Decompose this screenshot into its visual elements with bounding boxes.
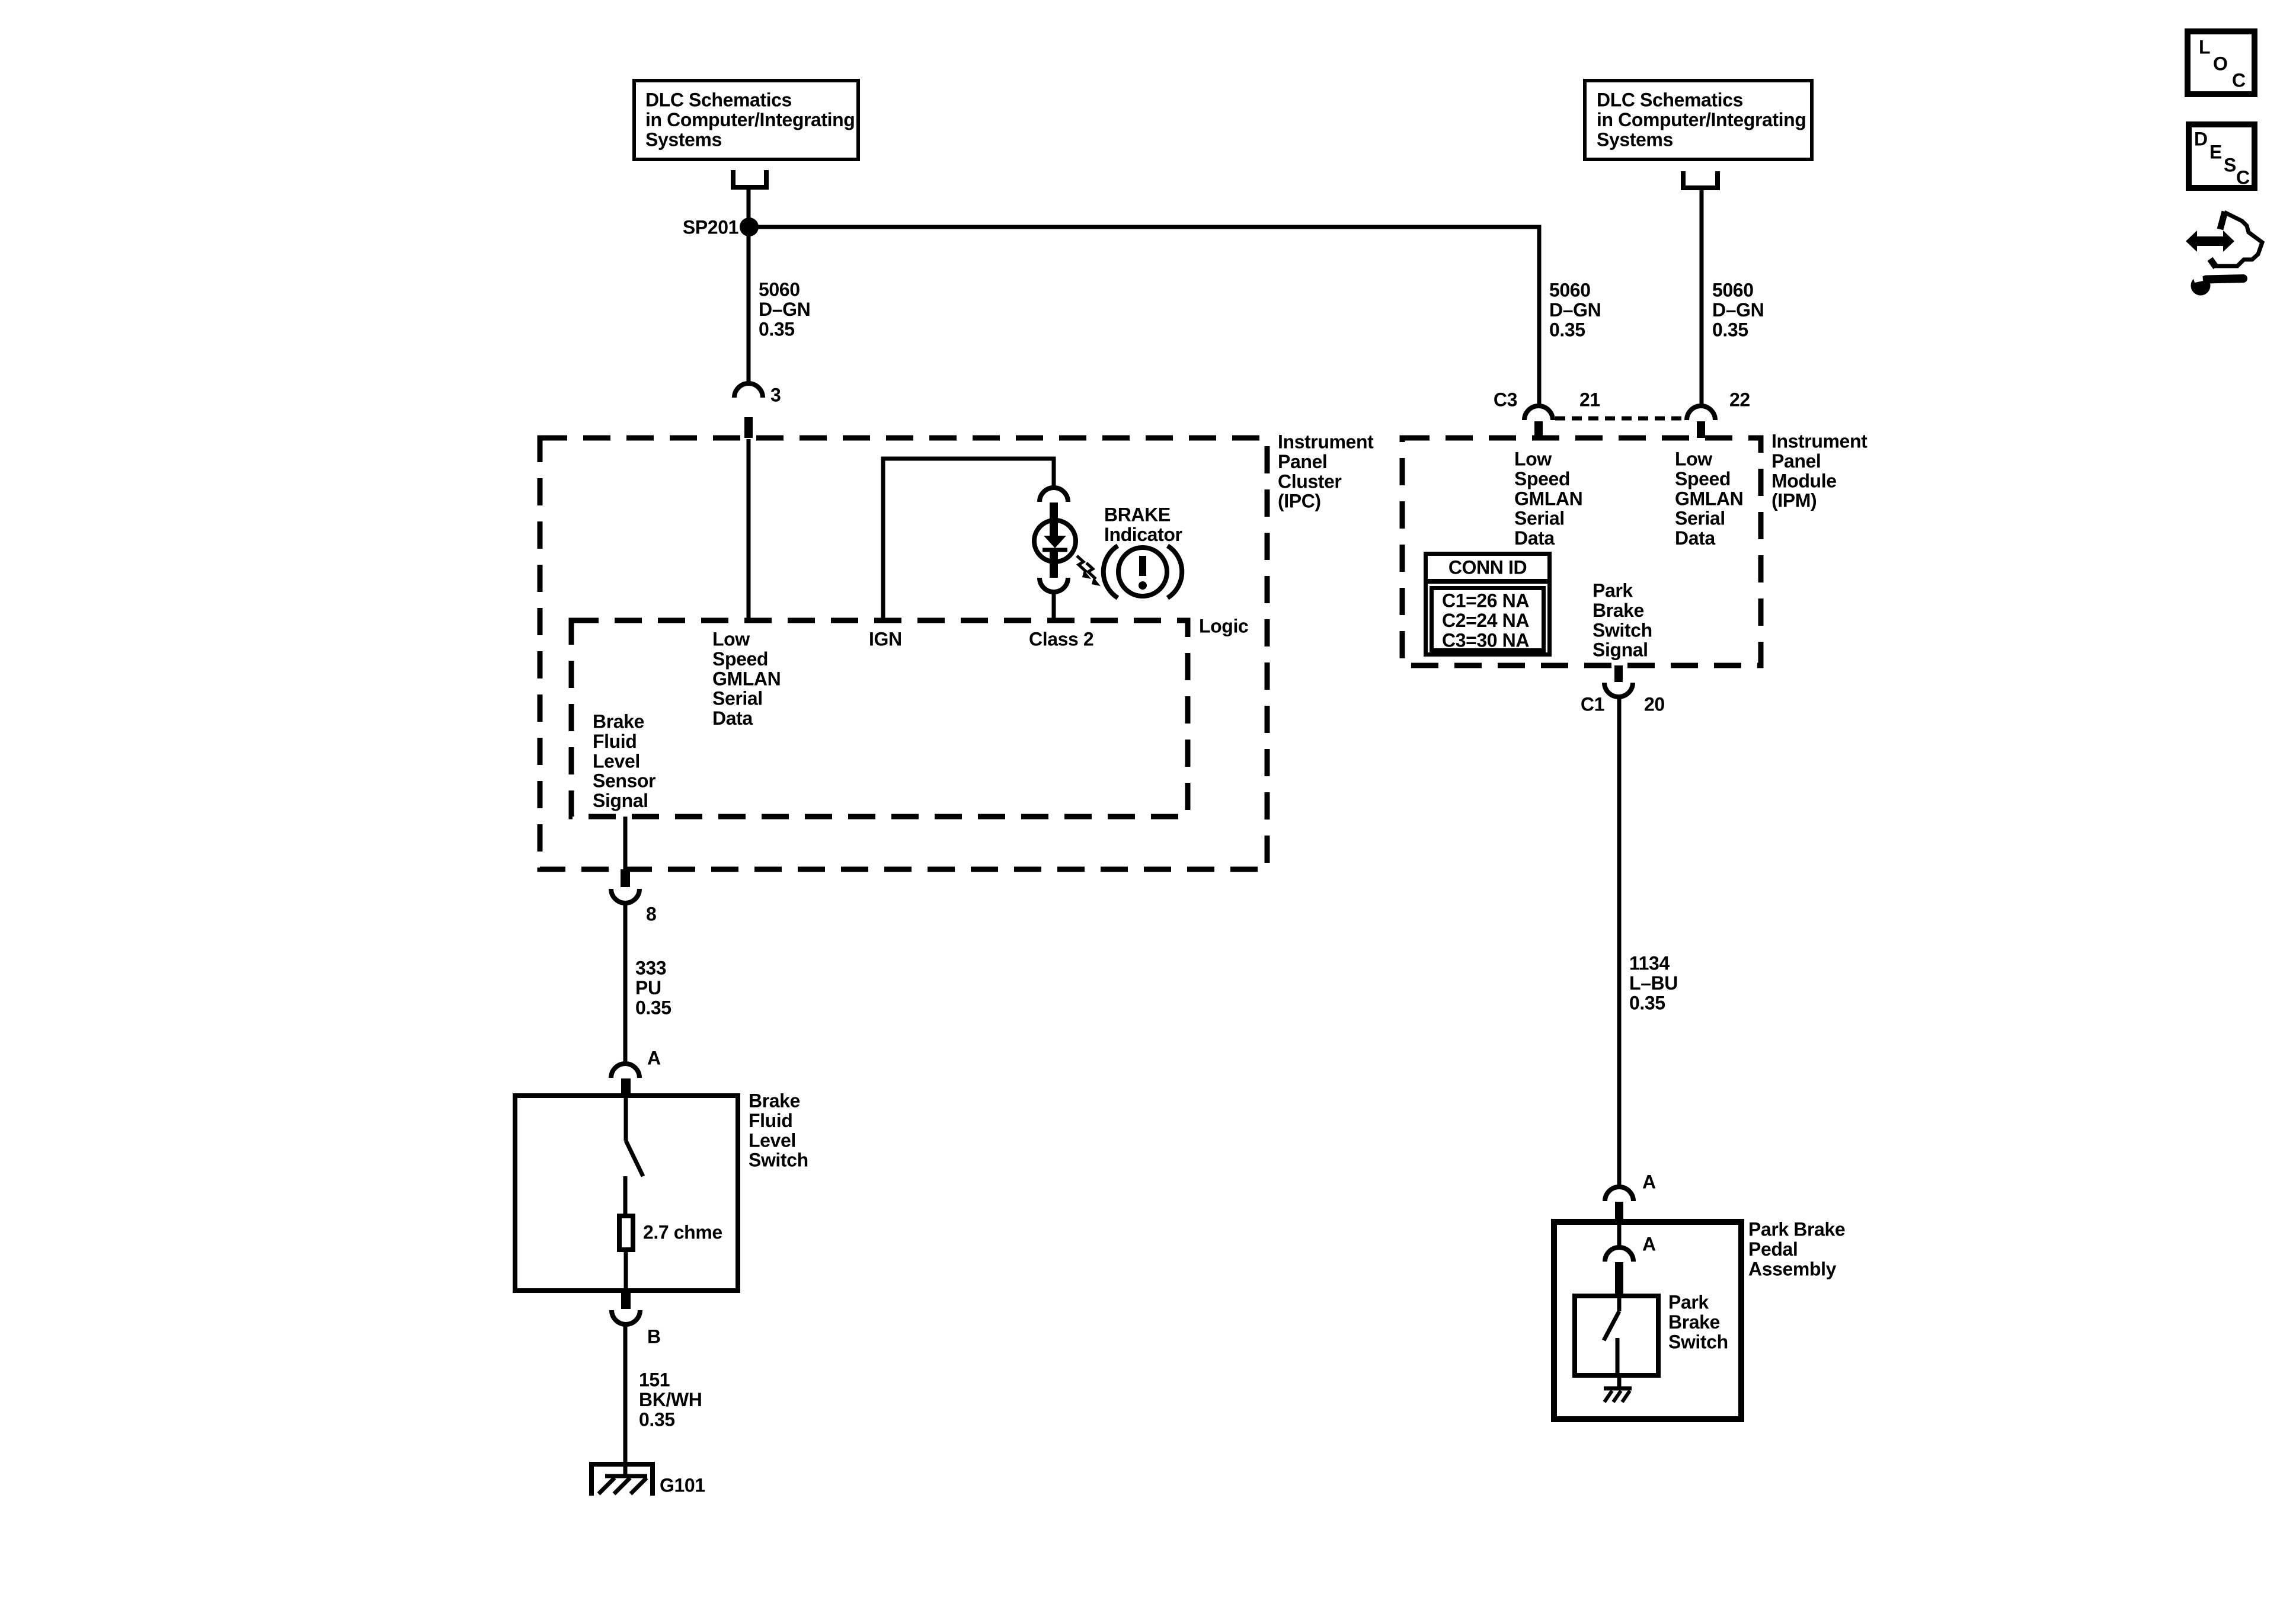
wire: sensor signal lead inside IPC	[623, 817, 628, 869]
ground G101 symbol	[589, 1462, 655, 1496]
resistor 2.7 ohm	[619, 1216, 633, 1250]
svg-text:151BK/WH0.35: 151BK/WH0.35	[639, 1369, 702, 1430]
box: Instrument Panel Cluster IPC (dashed)	[540, 438, 1267, 869]
wire: pin 3 into IPC logic (GMLAN serial data)	[747, 439, 751, 620]
svg-text:ParkBrakeSwitch: ParkBrakeSwitch	[1668, 1292, 1728, 1353]
connector: BRAKE indicator bottom	[1040, 578, 1068, 592]
park switch lower lead	[1616, 1338, 1620, 1378]
svg-text:InstrumentPanelCluster(IPC): InstrumentPanelCluster(IPC)	[1278, 431, 1374, 512]
svg-text:IGN: IGN	[869, 629, 902, 650]
switch lower lead	[623, 1176, 628, 1216]
box: Instrument Panel Module IPM (dashed)	[1402, 438, 1761, 665]
svg-text:C: C	[2232, 70, 2246, 91]
svg-text:SP201: SP201	[683, 217, 738, 238]
icon box: LOC	[2188, 31, 2255, 94]
svg-text:5060D–GN0.35: 5060D–GN0.35	[759, 279, 810, 340]
svg-text:333PU0.35: 333PU0.35	[635, 958, 671, 1019]
svg-text:DLC Schematicsin Computer/Inte: DLC Schematicsin Computer/IntegratingSys…	[1597, 89, 1806, 151]
svg-text:1134L–BU0.35: 1134L–BU0.35	[1629, 953, 1678, 1014]
wire: switch to ground G101	[623, 1324, 628, 1476]
svg-text:3: 3	[770, 385, 781, 406]
connector: assembly pin A	[1605, 1187, 1633, 1201]
svg-text:Class 2: Class 2	[1029, 629, 1093, 650]
icon: wrench	[2191, 276, 2211, 296]
connector bracket under left DLC box	[733, 170, 766, 187]
svg-text:BrakeFluidLevelSensorSignal: BrakeFluidLevelSensorSignal	[593, 711, 655, 812]
connector: IPM pin 22	[1687, 406, 1715, 420]
connector stub: IPM C1 pin 20	[1614, 665, 1623, 682]
svg-text:Logic: Logic	[1199, 616, 1248, 637]
dotted link between pins 21 and 22	[1555, 417, 1687, 421]
connector stub: pin 21	[1534, 421, 1543, 438]
switch contact upper lead	[624, 1097, 628, 1141]
connector: switch pin B	[612, 1310, 640, 1324]
svg-text:A: A	[1642, 1234, 1656, 1255]
icon: brake warning lamp circle	[1118, 548, 1167, 596]
wire: IGN to Class 2 bridge	[883, 459, 1054, 620]
splice SP201	[740, 217, 759, 236]
svg-text:C1: C1	[1581, 694, 1604, 715]
wire: pin 8 to brake fluid level switch	[623, 902, 628, 1065]
box: DLC Schematics reference (left)	[634, 81, 858, 159]
svg-text:BrakeFluidLevelSwitch: BrakeFluidLevelSwitch	[749, 1090, 808, 1171]
svg-text:A: A	[647, 1048, 661, 1069]
svg-text:CONN ID: CONN ID	[1448, 557, 1527, 578]
connector stub: park switch pin A	[1615, 1262, 1623, 1294]
svg-text:LowSpeedGMLANSerialData: LowSpeedGMLANSerialData	[1675, 449, 1743, 549]
wire: park switch to chassis ground	[1617, 1378, 1622, 1390]
switch blade	[626, 1141, 643, 1176]
svg-text:ParkBrakeSwitchSignal: ParkBrakeSwitchSignal	[1593, 580, 1652, 661]
wire: pin 20 to park brake pedal assembly	[1617, 697, 1622, 1188]
icon: right paren	[1168, 546, 1182, 598]
LED: BRAKE indicator lamp	[1034, 520, 1076, 562]
connector: park switch pin A	[1605, 1247, 1633, 1262]
svg-text:8: 8	[646, 904, 656, 925]
box: Park Brake Pedal Assembly	[1554, 1222, 1741, 1419]
svg-text:C1=26 NAC2=24 NAC3=30 NA: C1=26 NAC2=24 NAC3=30 NA	[1442, 590, 1529, 651]
resistor lower lead	[624, 1250, 628, 1293]
svg-text:S: S	[2224, 155, 2236, 176]
box: Brake Fluid Level Switch	[515, 1096, 738, 1291]
LED diode triangle	[1044, 536, 1066, 548]
table: CONN ID	[1426, 554, 1550, 655]
connector bracket under right DLC box	[1683, 171, 1718, 188]
chassis ground (park brake switch)	[1604, 1388, 1632, 1402]
lead: LED cathode	[1050, 552, 1058, 578]
connector: BRAKE indicator top	[1040, 488, 1068, 502]
wire: indicator to Class 2 pin	[1052, 592, 1056, 620]
svg-text:B: B	[647, 1326, 661, 1347]
svg-text:20: 20	[1644, 694, 1665, 715]
icon box: DESC	[2189, 124, 2255, 188]
svg-text:2.7 chme: 2.7 chme	[643, 1222, 722, 1243]
wire: SP201 down to IPC pin 3	[747, 227, 751, 385]
connector: IPC pin 8	[611, 889, 639, 903]
box: Park Brake Switch	[1575, 1296, 1658, 1375]
connector stub: pin 3	[744, 417, 753, 438]
wire: left DLC box to splice SP201	[747, 190, 751, 228]
svg-text:D: D	[2194, 129, 2208, 150]
connector stub: pin 22	[1697, 421, 1705, 438]
connector: IPC pin 3	[734, 383, 763, 398]
icon: exclamation	[1139, 556, 1146, 576]
icon: double arrow	[2195, 236, 2225, 246]
svg-text:C3: C3	[1494, 389, 1517, 411]
svg-text:O: O	[2213, 53, 2228, 75]
park switch blade	[1604, 1311, 1619, 1340]
svg-text:InstrumentPanelModule(IPM): InstrumentPanelModule(IPM)	[1771, 431, 1868, 511]
icon: component outline	[2214, 212, 2262, 266]
svg-text:LowSpeedGMLANSerialData: LowSpeedGMLANSerialData	[712, 629, 781, 729]
svg-text:C: C	[2236, 167, 2250, 188]
box: IPC Logic (dashed)	[571, 620, 1188, 817]
svg-text:L: L	[2199, 37, 2210, 58]
wire: SP201 bus right and down to IPM C3 pin 21	[749, 227, 1539, 406]
connector: IPM C3 pin 21	[1524, 406, 1553, 420]
svg-text:A: A	[1642, 1172, 1656, 1193]
svg-text:5060D–GN0.35: 5060D–GN0.35	[1549, 280, 1601, 341]
svg-text:G101: G101	[660, 1475, 705, 1496]
svg-text:Park BrakePedalAssembly: Park BrakePedalAssembly	[1748, 1219, 1845, 1280]
icon: left paren	[1104, 546, 1118, 598]
box: DLC Schematics reference (right)	[1585, 81, 1812, 159]
light emission arrows	[1077, 556, 1096, 579]
park switch upper lead	[1617, 1296, 1622, 1311]
connector stub: switch pin A	[621, 1078, 631, 1094]
svg-text:21: 21	[1579, 389, 1600, 411]
connector: IPM C1 pin 20	[1604, 683, 1633, 697]
wire: right DLC box to IPM pin 22	[1700, 190, 1704, 406]
connector stub: assembly pin A	[1615, 1202, 1623, 1221]
lead: LED anode	[1050, 502, 1058, 536]
connector stub: pin 8	[621, 869, 630, 887]
svg-text:5060D–GN0.35: 5060D–GN0.35	[1712, 280, 1764, 341]
connector stub: switch pin B	[621, 1293, 631, 1309]
wire: inside assembly	[1617, 1224, 1622, 1249]
connector: switch pin A	[611, 1064, 639, 1078]
svg-text:22: 22	[1729, 389, 1750, 411]
svg-text:LowSpeedGMLANSerialData: LowSpeedGMLANSerialData	[1514, 449, 1582, 549]
svg-text:DLC Schematicsin Computer/Inte: DLC Schematicsin Computer/IntegratingSys…	[645, 89, 855, 151]
svg-text:BRAKEIndicator: BRAKEIndicator	[1104, 504, 1182, 545]
svg-text:E: E	[2209, 142, 2222, 163]
LED cathode bar	[1043, 548, 1067, 552]
